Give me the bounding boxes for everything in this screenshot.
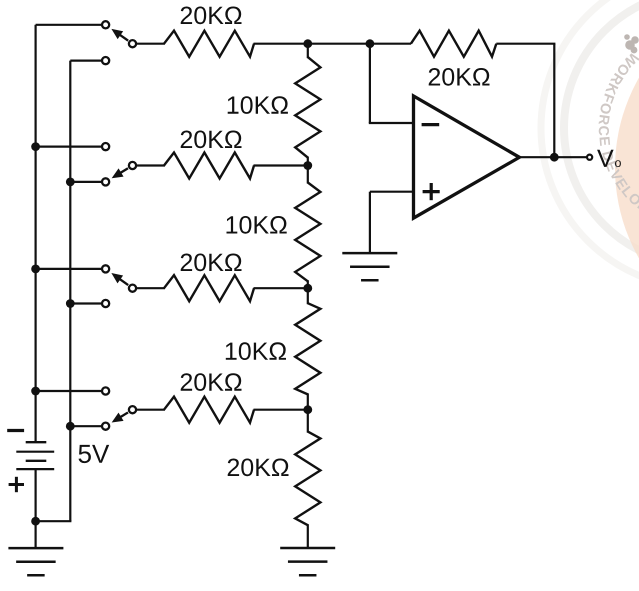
wire S2 upper terminal to bus A [36,146,102,148]
label Vo [597,150,621,167]
node bus B junction S4 lower [66,422,75,431]
label R1 20K value [181,7,242,25]
op-amp non-inverting input plus sign [423,183,440,200]
label 10K ladder 3 value [226,342,286,360]
battery B1 plates [16,442,54,469]
node bus B junction S3 lower [66,299,75,308]
switch S4 upper terminal [102,387,109,394]
wire non-inverting input to ground [370,192,414,253]
wire S2 pole to resistor [137,164,165,166]
label RF 20K value [429,68,490,86]
wire R3 to ladder [254,287,309,289]
switch S3 pole contact [129,285,136,292]
wire S4 upper terminal to bus A [36,390,102,392]
wire ladder lead below resistor 2 [307,280,309,288]
op-amp U1 triangle [414,96,520,218]
wire battery bottom to bus B [36,520,72,522]
resistor R2 20K zigzag [164,153,254,179]
wire top rail to feedback resistor [308,43,411,45]
wire S1 lower terminal to bus B [70,59,102,61]
wire S1 upper terminal to bus A [36,24,102,26]
ground battery [8,548,63,575]
wire feedback right vertical [553,44,555,158]
label R4 20K value [181,373,242,391]
wire ladder bottom to ground [307,524,309,548]
resistor 10K ladder 3 zigzag [295,303,320,394]
wire RF to output corner [496,43,555,45]
wire inverting input [369,44,414,123]
switch S1 lower terminal [102,57,109,64]
watermark seal inner disc [615,0,639,350]
resistor 20K ladder bottom zigzag [295,432,320,526]
op-amp inverting input minus sign [422,123,440,126]
resistor R1 20K zigzag [164,31,254,57]
wire ladder lead below resistor 3 [307,393,309,409]
switch S2 upper terminal [102,143,109,150]
node output junction [550,153,559,162]
node ladder junction 4 [303,405,312,414]
switch S2 pole contact [129,162,136,169]
wire ladder lead above resistor 3 [307,288,309,304]
wire bus A vertical (battery negative rail) [34,25,36,442]
wire ladder lead above resistor 1 [307,44,309,58]
switch S4 lower terminal [102,423,109,430]
switch S1 upper terminal [102,21,109,28]
wire R1 to ladder [254,43,309,45]
switch S2 lower terminal [102,178,109,185]
watermark curved text [599,53,639,228]
wire ladder lead below resistor 1 [307,157,309,166]
wire R4 to ladder [254,409,309,411]
watermark emblem [624,34,639,53]
resistor R4 20K zigzag [164,397,254,423]
wire battery to ground [34,521,36,548]
node bus B junction S2 lower [66,178,75,187]
watermark seal outer rings [541,0,639,288]
node ladder junction 2 [303,161,312,170]
node bus A junction S2 upper [31,142,40,151]
resistor 10K ladder 1 zigzag [295,57,320,158]
ground op-amp [342,253,397,280]
node ladder top junction [303,39,312,48]
label R2 20K value [181,131,242,149]
node ladder junction 3 [303,284,312,293]
wire S4 lower terminal to bus B [70,425,102,427]
resistor RF 20K feedback zigzag [411,31,496,57]
wire R2 to ladder [254,164,309,166]
resistor R3 20K zigzag [164,275,254,301]
ground ladder [280,548,335,575]
wire op-amp output [519,156,587,158]
node inverting branch junction [366,39,375,48]
wire battery bottom lead [34,469,36,521]
battery minus sign [7,429,24,432]
terminal Vo open circle [587,155,592,160]
switch S2 actuator arrow [112,168,128,178]
wire S3 pole to resistor [137,287,165,289]
wire S3 upper terminal to bus A [36,268,102,270]
battery plus sign [9,477,24,492]
wire S3 lower terminal to bus B [70,302,102,304]
switch S3 upper terminal [102,265,109,272]
label 20K ladder bottom value [228,459,289,477]
switch S3 actuator arrow [111,273,128,285]
node battery bottom junction [31,517,40,526]
node bus A junction S3 upper [31,265,40,274]
wire S1 pole to resistor [137,43,165,45]
label 10K ladder 2 value [227,216,287,234]
wire S2 lower terminal to bus B [70,181,102,183]
label R3 20K value [181,254,242,272]
switch S1 actuator arrow [111,29,128,41]
resistor 10K ladder 2 zigzag [295,183,320,282]
switch S1 pole contact [129,40,136,47]
node bus A junction S4 upper [31,387,40,396]
switch S4 pole contact [129,406,136,413]
label battery 5V [79,445,110,463]
wire S4 pole to resistor [137,409,165,411]
wire bus B vertical (battery positive rail) [69,61,71,522]
wire ladder lead above resistor 4 [307,410,309,433]
label 10K ladder 1 value [228,96,288,114]
switch S3 lower terminal [102,300,109,307]
switch S4 actuator arrow [112,412,128,422]
wire ladder lead above resistor 2 [307,166,309,184]
